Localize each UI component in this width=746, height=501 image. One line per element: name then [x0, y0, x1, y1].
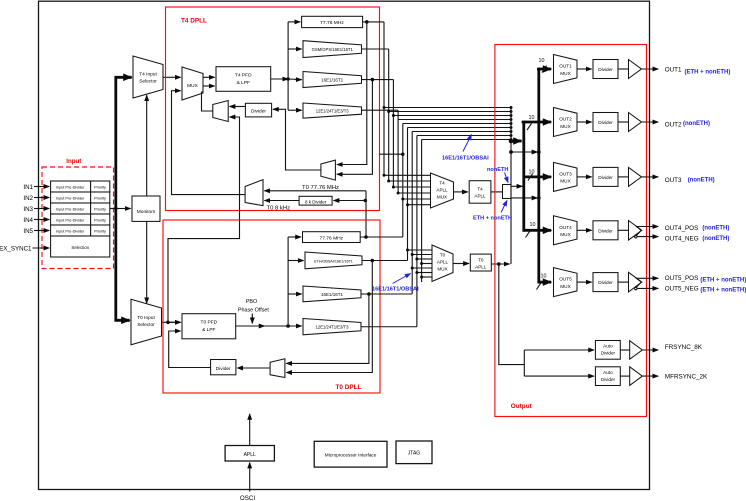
block Divider OUT5	[593, 273, 618, 292]
svg-text:Divider: Divider	[598, 228, 613, 233]
svg-text:T0 77.76 MHz: T0 77.76 MHz	[302, 185, 339, 191]
input IN2 label and arrow	[23, 195, 49, 202]
wire T0 select out to T4 MUX lower input	[172, 91, 246, 195]
label OSCI	[240, 495, 255, 501]
node 77.76 T4 tap	[365, 20, 369, 24]
node T4 feed junction	[286, 77, 290, 81]
svg-text:10: 10	[539, 58, 545, 64]
bus A thick vertical	[522, 122, 525, 230]
svg-text:T4 DPLL: T4 DPLL	[181, 18, 207, 25]
label T0 77.76 MHz	[302, 185, 339, 191]
input pre-divider/priority row IN5	[51, 225, 110, 236]
svg-text:EX_SYNC1: EX_SYNC1	[0, 245, 32, 252]
block Divider T0	[211, 360, 236, 375]
wire 8k Divider out to select	[264, 200, 299, 202]
wire arrow into 16E1 T4 divider	[295, 79, 302, 81]
wire arrow into 77.76 T0	[288, 236, 301, 238]
block T0 PFD & LPF	[182, 314, 236, 339]
wire arrow into Auto Divider 2	[524, 375, 594, 377]
block 8 k Divider	[299, 196, 332, 205]
svg-text:& LPF: & LPF	[202, 327, 215, 333]
label OUT5_POS and net	[665, 275, 746, 284]
wire OUT4_POS output arrow	[636, 226, 658, 228]
svg-text:Output: Output	[511, 403, 533, 410]
svg-text:OUT5_POS: OUT5_POS	[665, 275, 699, 282]
label OUT3 and net	[665, 177, 715, 184]
wire ETH+nonETH arrow to bus B	[511, 197, 537, 199]
chip outer frame	[39, 1, 650, 489]
svg-text:APLL: APLL	[474, 194, 486, 199]
label OUT4_POS and net	[665, 225, 730, 232]
node T0 reference junction	[166, 321, 170, 325]
svg-text:Divider: Divider	[216, 366, 231, 372]
wire T0 77.76 MHz line	[264, 191, 366, 237]
block Auto Divider 2	[595, 367, 620, 386]
wire auto divider 2 to buffer	[620, 375, 629, 377]
node riser branch right	[537, 150, 541, 154]
svg-text:T0: T0	[440, 253, 446, 258]
wire 16E1 T0 output	[361, 293, 412, 295]
wire OSCI into APLL	[249, 463, 251, 492]
svg-text:10: 10	[530, 222, 536, 228]
divider GSM/GPS/16E1/16T1	[303, 41, 362, 58]
svg-text:(nonETH): (nonETH)	[702, 236, 729, 242]
svg-text:Divider: Divider	[598, 280, 613, 285]
wire T4 APLL MUX to T4 APLL	[454, 191, 468, 193]
wire riser vertical	[510, 108, 512, 265]
node riser big junction	[509, 139, 514, 144]
mux T4 feedback select	[321, 160, 336, 180]
wire divider OUT3 to buffer	[618, 176, 629, 178]
mux T0 77.76/8kHz select	[245, 180, 263, 206]
svg-text:OUT3: OUT3	[559, 171, 572, 176]
node 8k divider tap	[364, 199, 368, 203]
wire GSM output	[362, 48, 389, 50]
block Divider OUT1	[593, 60, 618, 79]
svg-text:T0 DPLL: T0 DPLL	[336, 384, 362, 391]
svg-text:nonETH: nonETH	[487, 167, 508, 173]
svg-text:Input Pre-Divider: Input Pre-Divider	[56, 218, 85, 222]
wire FRSYNC_8K arrow	[642, 349, 658, 351]
block T0 APLL	[470, 254, 491, 271]
svg-text:MUX: MUX	[187, 83, 198, 89]
wire OUT2 MUX to divider	[577, 121, 592, 123]
wire thick arrow into OUT1 MUX	[539, 68, 551, 71]
svg-text:OUT1: OUT1	[665, 67, 682, 74]
wire into 8k Divider	[334, 200, 366, 202]
blue label 16E1/16T1/OBSAI lower	[372, 274, 419, 293]
block T4 APLL	[469, 181, 491, 204]
wire T4 MUX out lower to PFD	[203, 85, 215, 87]
node bundle riser taps	[510, 106, 513, 141]
svg-text:Input Pre-Divider: Input Pre-Divider	[56, 229, 85, 233]
buffer triangle MFRSYNC_2K	[630, 367, 643, 386]
wire thick arrow into OUT2 MUX	[524, 121, 551, 124]
wire MFRSYNC_2K arrow	[642, 375, 658, 377]
wire T4 selector to T4 MUX	[163, 76, 181, 78]
T4 DPLL red box	[166, 7, 380, 211]
blue label ETH + nonETH	[473, 201, 512, 222]
svg-text:Divider: Divider	[601, 377, 616, 382]
wire OUT5 MUX to divider	[577, 281, 592, 283]
wire thick arrow into OUT3 MUX	[524, 175, 551, 178]
differential buffer OUT4	[629, 221, 642, 241]
wire 12E1 T4 output	[362, 109, 399, 111]
svg-text:JTAG: JTAG	[408, 451, 421, 457]
svg-text:IN1: IN1	[23, 184, 33, 191]
wire arrow into GSM divider	[288, 48, 302, 50]
wire OUT4 MUX to divider	[577, 229, 592, 231]
buffer triangle OUT2	[629, 113, 642, 132]
bus width 10 mark OUT4	[526, 222, 536, 238]
input IN3 label and arrow	[23, 206, 49, 213]
wire OUT1 MUX to divider	[577, 68, 592, 70]
bus width 10 mark OUT3	[528, 170, 535, 181]
svg-text:10: 10	[529, 115, 535, 121]
wire riser branch to bus B	[511, 151, 537, 153]
svg-text:MUX: MUX	[560, 232, 571, 237]
wire T4 MUX out upper to PFD	[203, 76, 215, 78]
buffer triangle OUT1	[629, 60, 642, 79]
wire T4 PFD output	[271, 78, 302, 81]
buffer triangle FRSYNC_8K	[630, 341, 643, 360]
bus B thick vertical	[537, 69, 540, 282]
wire divider OUT4 to buffer	[618, 229, 629, 231]
svg-text:(nonETH): (nonETH)	[688, 178, 715, 184]
input EX_SYNC1 label and arrow	[0, 245, 49, 252]
svg-text:ETH + nonETH: ETH + nonETH	[473, 216, 512, 222]
svg-text:MUX: MUX	[560, 124, 571, 129]
svg-text:Input Pre-Divider: Input Pre-Divider	[56, 196, 85, 200]
wire 16E1 T4 output	[362, 79, 394, 81]
svg-text:Selector: Selector	[139, 79, 157, 85]
selection box	[51, 236, 110, 257]
svg-text:16E1/16T1: 16E1/16T1	[321, 292, 344, 297]
wire Monitors down to T0 input selector	[146, 221, 148, 303]
wire T0 fb mux to Divider	[237, 367, 270, 369]
wire OUT3 output arrow	[642, 176, 659, 178]
input pre-divider/priority row IN1	[51, 181, 110, 192]
svg-text:Divider: Divider	[601, 351, 616, 356]
blue label nonETH	[487, 167, 508, 183]
label OUT2 and net	[665, 121, 710, 129]
svg-text:12E1/24T1/E3/T3: 12E1/24T1/E3/T3	[316, 109, 349, 114]
wire T0 selector output	[162, 321, 181, 323]
svg-text:IN4: IN4	[23, 217, 33, 224]
wire 12E1 T0 output	[361, 326, 417, 328]
wire T4 fb mux to Divider	[273, 109, 321, 170]
svg-text:(nonETH): (nonETH)	[702, 226, 729, 232]
label Output	[511, 403, 533, 410]
svg-text:Priority: Priority	[94, 229, 106, 233]
svg-text:ETH/OBSAI/16E1/16T1: ETH/OBSAI/16E1/16T1	[314, 259, 353, 263]
svg-text:8 k Divider: 8 k Divider	[305, 199, 327, 204]
wire 77.76 T4 output	[363, 21, 384, 23]
svg-text:OUT5: OUT5	[559, 277, 572, 282]
mux T0 feedback select	[270, 359, 285, 378]
wire T0 reference up to T4 select	[168, 117, 240, 322]
mux OUT3 MUX	[554, 162, 578, 191]
svg-text:APLL: APLL	[436, 188, 448, 193]
node bundle crossing taps	[383, 106, 395, 117]
node ETH fb tap	[371, 259, 375, 263]
svg-text:Divider: Divider	[598, 67, 613, 72]
mux OUT1 MUX	[554, 55, 578, 84]
svg-text:APLL: APLL	[244, 452, 256, 458]
wire T0 APLL output to riser	[491, 263, 509, 265]
wire T0 PFD output	[236, 325, 302, 327]
buffer triangle OUT3	[629, 167, 642, 186]
label MFRSYNC_2K	[665, 374, 708, 381]
mux OUT2 MUX	[554, 108, 578, 137]
input section dashed red box	[42, 167, 114, 269]
svg-text:OUT1: OUT1	[559, 64, 572, 69]
wire OUT5_NEG output arrow	[637, 287, 658, 289]
svg-text:16E1/16T1: 16E1/16T1	[321, 78, 344, 83]
svg-text:PBO: PBO	[246, 299, 257, 305]
wire T0 divider feed vertical	[287, 237, 289, 326]
wire arrow into 12E1 T4 divider	[288, 109, 302, 111]
wire T4 APLL to output select	[491, 191, 503, 193]
node 77.76 T0 tap	[364, 235, 368, 239]
wire thick arrow into OUT4 MUX	[524, 229, 551, 232]
node T0 feed junction	[286, 324, 290, 328]
svg-text:16E1/16T1/OBSAI: 16E1/16T1/OBSAI	[372, 287, 419, 293]
label OUT5_NEG and net	[665, 286, 746, 294]
wire divider OUT2 to buffer	[618, 121, 629, 123]
wire Divider T4 to fb select trap	[230, 106, 246, 108]
wire T0 reference into PFD	[168, 321, 181, 323]
svg-text:12E1/24T1/E3/T3: 12E1/24T1/E3/T3	[316, 325, 349, 330]
wire arrow into Monitors	[116, 208, 131, 210]
wire fb drop 16E1 to T0 fb mux	[286, 294, 369, 363]
block Monitors	[132, 196, 160, 221]
svg-text:T4: T4	[439, 181, 445, 186]
Output red box	[495, 45, 647, 417]
divider ETH/OBSAI/16E1/16T1	[305, 252, 362, 269]
svg-text:Divider: Divider	[598, 175, 613, 180]
label T4 DPLL	[181, 18, 207, 25]
mux T4 APLL MUX	[431, 173, 454, 208]
wire bundle thick arrow into bus A	[511, 140, 522, 143]
mux T4 MUX	[182, 67, 203, 100]
svg-text:OUT5_NEG: OUT5_NEG	[665, 286, 699, 293]
svg-text:APLL: APLL	[475, 265, 487, 270]
wire T4 divider feed vertical	[287, 22, 289, 110]
input IN1 label and arrow	[23, 184, 49, 191]
input IN5 label and arrow	[23, 228, 49, 235]
block 77.76 MHz T0	[303, 232, 361, 243]
svg-text:OUT2: OUT2	[665, 122, 682, 129]
wire maze vertical lines	[384, 22, 422, 327]
svg-text:IN2: IN2	[23, 195, 33, 202]
wire T4 APLL MUX input stubs	[384, 175, 431, 204]
svg-text:IN5: IN5	[23, 228, 33, 235]
svg-text:T0: T0	[478, 258, 484, 263]
svg-text:MUX: MUX	[560, 179, 571, 184]
wire T0 APLL MUX to T0 APLL	[453, 263, 469, 265]
svg-text:GSM/GPS/16E1/16T1: GSM/GPS/16E1/16T1	[312, 47, 354, 52]
label OUT1 and net	[665, 67, 731, 76]
svg-text:Auto: Auto	[603, 344, 613, 349]
wire APLL up arrow	[249, 414, 251, 446]
label Input	[66, 158, 81, 165]
svg-text:Auto: Auto	[603, 370, 613, 375]
svg-text:Priority: Priority	[94, 218, 106, 222]
wire arrow into 16E1 T0 divider	[288, 293, 302, 295]
svg-text:Phase Offset: Phase Offset	[238, 307, 270, 313]
label T0 DPLL	[336, 384, 362, 391]
svg-text:(nonETH): (nonETH)	[683, 121, 710, 127]
mux OUT5 MUX	[554, 268, 578, 297]
svg-text:Priority: Priority	[94, 196, 106, 200]
wire divider OUT1 to buffer	[618, 68, 629, 70]
svg-text:77.76 MHz: 77.76 MHz	[319, 235, 343, 241]
svg-text:FRSYNC_8K: FRSYNC_8K	[665, 344, 703, 351]
block APLL	[225, 446, 274, 462]
svg-text:T4: T4	[477, 187, 483, 192]
wire arrow into ETH divider	[288, 260, 304, 262]
svg-text:Input Pre-Divider: Input Pre-Divider	[56, 185, 85, 189]
svg-text:Divider: Divider	[598, 120, 613, 125]
wire Monitors up to T4 input selector	[146, 95, 148, 196]
svg-text:APLL: APLL	[437, 260, 449, 265]
input pre-divider/priority row IN3	[51, 203, 110, 214]
svg-text:T4 PFD: T4 PFD	[235, 73, 252, 79]
bus width 10 mark OUT5	[537, 274, 547, 290]
block Divider OUT2	[593, 113, 618, 132]
wire arrow into 77.76 MHz T4	[288, 21, 300, 23]
svg-text:T0 8 kHz: T0 8 kHz	[267, 205, 291, 211]
node 16E1 T4 tap	[371, 78, 375, 82]
wire divider OUT5 to buffer	[618, 281, 629, 283]
node riser branch left	[509, 150, 513, 154]
block JTAG	[396, 441, 432, 464]
node 16E1 T0 fb tap	[367, 292, 371, 296]
label FRSYNC_8K	[665, 344, 703, 351]
svg-text:Divider: Divider	[251, 109, 266, 115]
wire ETH output	[362, 260, 408, 262]
label T0 8 kHz	[267, 205, 291, 211]
divider 16E1/16T1 T0	[303, 286, 361, 302]
block T4 PFD & LPF	[216, 67, 271, 92]
svg-text:(ETH + nonETH): (ETH + nonETH)	[685, 69, 731, 75]
label PBO Phase Offset	[238, 299, 270, 313]
wire feedback drop 16E1 to T4 fb mux	[337, 80, 373, 175]
input IN4 label and arrow	[23, 217, 49, 224]
svg-text:OUT4_POS: OUT4_POS	[665, 225, 699, 232]
mux T4 reference/feedback select	[213, 101, 228, 122]
svg-text:(ETH + nonETH): (ETH + nonETH)	[700, 277, 746, 283]
left reference thick bus	[116, 77, 132, 320]
svg-text:MUX: MUX	[560, 71, 571, 76]
differential buffer OUT5	[629, 272, 642, 292]
wire arrow into Auto Divider 1	[524, 349, 594, 351]
svg-text:16E1/16T1/OBSAI: 16E1/16T1/OBSAI	[442, 155, 489, 161]
svg-text:Priority: Priority	[94, 185, 106, 189]
svg-text:Priority: Priority	[94, 207, 106, 211]
svg-text:10: 10	[541, 274, 547, 280]
wire feedback drop 77.76 to T4 fb mux	[337, 22, 367, 165]
node T0 APLL MUX stub taps	[406, 249, 423, 279]
svg-text:MFRSYNC_2K: MFRSYNC_2K	[665, 374, 708, 381]
svg-text:Monitors: Monitors	[137, 209, 156, 215]
svg-text:OUT4_NEG: OUT4_NEG	[665, 236, 699, 243]
block Divider OUT3	[593, 167, 618, 186]
svg-text:Input: Input	[66, 158, 81, 165]
mux OUT4 MUX	[554, 216, 578, 245]
node table-bus junction	[114, 207, 118, 211]
divider 12E1/24T1/E3/T3 T4	[303, 103, 362, 118]
wire T4 select out to MUX	[202, 92, 213, 111]
wire OUT4_NEG output arrow	[637, 236, 658, 238]
svg-text:Microprocessor Interface: Microprocessor Interface	[325, 453, 377, 458]
block Auto Divider 1	[595, 341, 620, 360]
node ETH+nonETH join bus B	[537, 196, 541, 200]
wire OUT3 MUX to divider	[577, 176, 592, 178]
wire thick arrow into OUT5 MUX	[539, 281, 551, 284]
blue label 16E1/16T1/OBSAI upper	[442, 135, 489, 162]
svg-text:Input Pre-Divider: Input Pre-Divider	[56, 207, 85, 211]
wire nonETH arrow to bus A	[511, 185, 522, 187]
svg-text:IN3: IN3	[23, 206, 33, 213]
wire tap line to maze	[380, 153, 403, 155]
mux T0 Input Selector	[131, 299, 162, 345]
mux T0 APLL MUX	[432, 245, 453, 282]
node T4 APLL MUX stub taps	[383, 174, 410, 206]
arrow bus into T0 input selector	[123, 319, 130, 322]
divider 16E1/16T1 T4	[303, 72, 362, 88]
svg-text:& LPF: & LPF	[237, 80, 250, 86]
input pre-divider/priority row IN2	[51, 192, 110, 203]
wire OUT2 output arrow	[642, 121, 659, 123]
wire OUT5_POS output arrow	[636, 277, 658, 279]
svg-text:T0 Input: T0 Input	[137, 315, 155, 321]
block Divider T4	[245, 103, 271, 117]
label OUT4_NEG and net	[665, 236, 730, 243]
svg-text:T0 PFD: T0 PFD	[201, 320, 218, 326]
svg-text:MUX: MUX	[560, 284, 571, 289]
wire selector table output to bus	[110, 208, 116, 210]
wire T0 APLL MUX input stubs	[408, 250, 433, 277]
svg-text:MUX: MUX	[437, 195, 447, 200]
arrow bus into T4 input selector	[125, 76, 132, 79]
wire T0 fb into PFD	[169, 331, 211, 368]
wire bundle horizontal lines	[384, 108, 511, 140]
mux T4 Input Selector	[133, 56, 163, 98]
svg-text:OUT4: OUT4	[559, 225, 572, 230]
block Divider OUT4	[593, 221, 618, 240]
wire T0 APLL to auto dividers	[499, 264, 525, 376]
wire auto divider 1 to buffer	[620, 349, 629, 351]
divider 12E1/24T1/E3/T3 T0	[303, 319, 361, 335]
node T0 APLL branch	[497, 262, 501, 266]
wire PBO arrow down	[251, 314, 253, 324]
block Microprocessor Interface	[314, 441, 387, 467]
node tap line junction	[401, 153, 404, 156]
svg-text:OSCI: OSCI	[240, 495, 255, 501]
block T4 output select	[503, 185, 512, 199]
wire fb drop ETH to T0 fb mux	[286, 261, 372, 373]
svg-text:OUT3: OUT3	[665, 177, 682, 184]
svg-text:MUX: MUX	[437, 267, 447, 272]
bus width 10 mark OUT2	[527, 115, 535, 130]
svg-text:(ETH + nonETH): (ETH + nonETH)	[700, 287, 746, 293]
T0 DPLL red box	[163, 220, 380, 393]
bus width 10 mark OUT1	[539, 58, 547, 73]
block 77.76 MHz T4	[302, 16, 363, 27]
svg-text:OUT2: OUT2	[559, 117, 572, 122]
